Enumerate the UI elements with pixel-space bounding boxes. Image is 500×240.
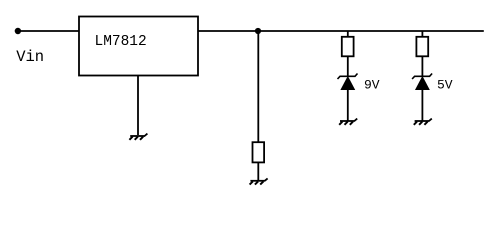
wire D2 to ground — [421, 89, 423, 121]
wire R3 to zener D2 — [421, 56, 423, 77]
svg-text:LM7812: LM7812 — [95, 34, 147, 50]
resistor R1 — [253, 142, 265, 162]
ground under D2 — [414, 119, 432, 125]
node junction dot — [255, 28, 261, 34]
wire R1 to ground — [257, 162, 259, 181]
wire D1 to ground — [347, 89, 349, 121]
wire stub to resistor R3 — [421, 31, 423, 37]
zener diode D2 — [412, 74, 432, 90]
ground under R1 — [250, 178, 268, 184]
resistor R3 — [416, 37, 428, 57]
wire regulator output to right — [198, 30, 484, 32]
ground under D1 — [339, 119, 357, 125]
node Vin terminal dot — [15, 28, 21, 34]
svg-text:9V: 9V — [364, 78, 380, 93]
ground under regulator — [129, 134, 147, 140]
regulator U1 box — [79, 17, 198, 76]
wire regulator ground pin — [137, 75, 139, 135]
svg-text:5V: 5V — [437, 78, 453, 93]
resistor R2 — [342, 37, 354, 57]
svg-text:Vin: Vin — [16, 48, 44, 66]
zener diode D1 — [338, 74, 358, 90]
wire R2 to zener D1 — [347, 56, 349, 77]
wire junction down to resistor R1 — [257, 31, 259, 143]
wire Vin to regulator input — [20, 30, 79, 32]
wire stub to resistor R2 — [347, 31, 349, 37]
